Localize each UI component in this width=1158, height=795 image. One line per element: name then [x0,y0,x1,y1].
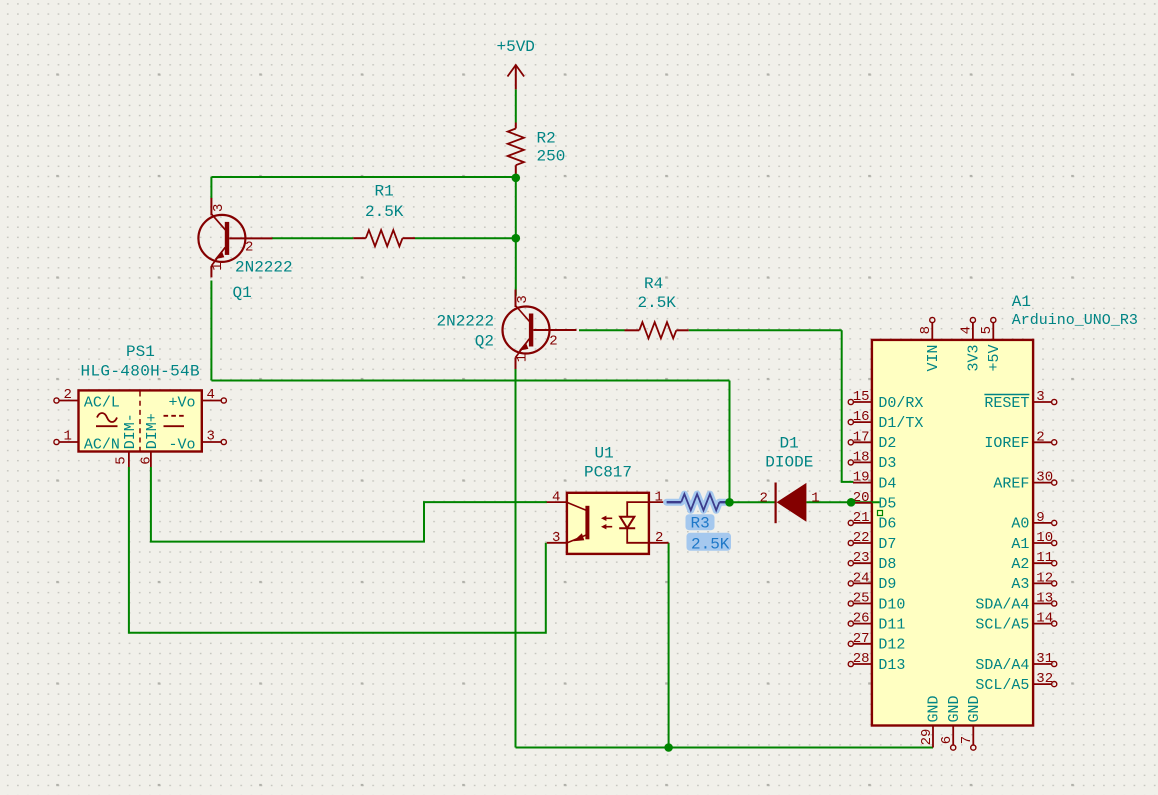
wire Q1 base to R1 [272,237,353,239]
svg-text:D11: D11 [878,616,905,633]
svg-text:2N2222: 2N2222 [235,259,293,277]
svg-text:2N2222: 2N2222 [437,313,495,331]
svg-text:2: 2 [760,491,768,507]
svg-text:DIM-: DIM- [122,413,139,449]
svg-text:R1: R1 [375,183,394,201]
svg-text:4: 4 [552,489,560,505]
svg-text:D13: D13 [878,657,905,674]
svg-text:PS1: PS1 [126,343,155,361]
resistor R1 [353,183,415,247]
svg-text:SDA/A4: SDA/A4 [975,657,1029,674]
svg-text:5: 5 [114,456,130,464]
wire R2 node down to Q2 collector [515,177,517,296]
svg-text:A2: A2 [1011,556,1029,573]
svg-text:D12: D12 [878,637,905,654]
svg-text:Arduino_UNO_R3: Arduino_UNO_R3 [1012,312,1138,329]
arduino A1 right pins [975,389,1056,694]
svg-text:2: 2 [1036,429,1044,445]
junction A R2 bottom [512,174,521,183]
svg-text:Q2: Q2 [475,333,494,351]
wire Q2 emitter down to GND rail [515,368,517,748]
optocoupler U1 body [567,493,649,554]
svg-text:2: 2 [549,334,557,350]
svg-text:28: 28 [853,651,870,667]
wire +5VD to R2 [515,89,517,122]
svg-text:2.5K: 2.5K [638,294,677,312]
svg-text:24: 24 [853,570,870,586]
svg-text:D8: D8 [878,556,896,573]
svg-text:29: 29 [919,729,935,746]
power supply PS1 body [79,390,202,451]
svg-text:D7: D7 [878,536,896,553]
junction C R3 right [725,498,734,507]
svg-text:U1: U1 [595,445,614,463]
svg-text:13: 13 [1036,591,1053,607]
svg-text:AC/L: AC/L [84,394,120,411]
svg-text:16: 16 [853,409,870,425]
power symbol +5VD [497,38,535,89]
svg-text:+5V: +5V [986,344,1003,371]
svg-text:-Vo: -Vo [169,436,196,453]
wire U1 pin2 down to GND rail [668,543,670,748]
svg-text:R2: R2 [537,130,556,148]
wire node to D1 cathode [730,501,776,503]
svg-text:6: 6 [939,736,955,744]
transistor Q1 [198,198,292,302]
svg-text:8: 8 [918,326,934,334]
svg-text:D2: D2 [878,435,896,452]
transistor Q2 [437,290,577,370]
svg-text:5: 5 [979,326,995,334]
svg-text:R3: R3 [691,515,710,533]
svg-text:27: 27 [853,631,870,647]
svg-text:30: 30 [1036,470,1053,486]
svg-text:15: 15 [853,389,870,405]
svg-text:D10: D10 [878,596,905,613]
svg-text:22: 22 [853,530,870,546]
svg-text:Q1: Q1 [233,284,252,302]
svg-text:23: 23 [853,550,870,566]
svg-text:AC/N: AC/N [84,436,120,453]
svg-text:GND: GND [946,695,963,722]
svg-text:A1: A1 [1011,536,1029,553]
svg-text:10: 10 [1036,530,1053,546]
wire Q2 base to R4 [579,329,625,331]
svg-text:25: 25 [853,591,870,607]
svg-text:250: 250 [537,148,566,166]
svg-text:R4: R4 [644,275,663,293]
svg-text:1: 1 [811,491,819,507]
svg-text:SCL/A5: SCL/A5 [975,616,1029,633]
wire Q1 collector stub [210,177,212,199]
wire PS1 pin5 to U1 pin3 [129,467,546,633]
svg-text:3: 3 [1036,389,1044,405]
svg-text:GND: GND [966,695,983,722]
svg-text:A1: A1 [1012,293,1031,311]
resistor R3 (highlighted) [667,494,731,553]
svg-text:AREF: AREF [993,475,1029,492]
svg-text:D6: D6 [878,516,896,533]
svg-text:2: 2 [655,530,663,546]
svg-text:RESET: RESET [984,395,1029,412]
svg-text:A3: A3 [1011,576,1029,593]
svg-text:1: 1 [514,354,530,362]
svg-text:2: 2 [64,387,72,403]
wire GND rail to pin 29 [516,747,934,749]
svg-text:26: 26 [853,611,870,627]
svg-text:D9: D9 [878,576,896,593]
svg-text:3: 3 [211,204,227,212]
svg-text:3V3: 3V3 [966,344,983,371]
svg-text:19: 19 [853,470,870,486]
svg-text:6: 6 [139,456,155,464]
svg-text:3: 3 [207,429,215,445]
svg-text:17: 17 [853,429,870,445]
optocoupler U1 pins and labels [547,445,669,547]
svg-text:D1/TX: D1/TX [878,415,923,432]
wire Q1 emitter down [210,281,212,381]
svg-text:31: 31 [1036,651,1053,667]
svg-text:2.5K: 2.5K [691,536,730,554]
wire D1 node into pin D5 [851,502,882,515]
wire Q1 collector to R2 node [211,176,515,178]
junction B R1 right [512,234,521,243]
arduino A1 left pins D0-D13 [848,389,923,674]
wire R4 to Arduino D4 [689,329,842,331]
svg-text:DIODE: DIODE [765,454,813,472]
svg-text:D4: D4 [878,475,896,492]
svg-text:+5VD: +5VD [497,38,535,56]
svg-text:PC817: PC817 [584,464,632,482]
svg-text:HLG-480H-54B: HLG-480H-54B [81,363,200,381]
svg-text:A0: A0 [1011,516,1029,533]
wire down to pin D4 [842,330,854,482]
svg-text:21: 21 [853,510,870,526]
svg-text:11: 11 [1036,550,1053,566]
svg-text:SCL/A5: SCL/A5 [975,677,1029,694]
svg-text:DIM+: DIM+ [144,413,161,449]
svg-text:1: 1 [655,489,663,505]
svg-text:18: 18 [853,449,870,465]
svg-text:D3: D3 [878,455,896,472]
svg-text:+Vo: +Vo [169,394,196,411]
svg-text:IOREF: IOREF [984,435,1029,452]
junction D pin D5 [847,498,856,507]
wire Q1 emitter across [211,380,729,382]
svg-text:3: 3 [552,530,560,546]
svg-text:4: 4 [207,387,215,403]
power supply PS1 pins and labels [54,343,227,467]
svg-text:14: 14 [1036,611,1053,627]
svg-text:9: 9 [1036,510,1044,526]
wire PS1 pin6 to U1 pin4 [151,467,547,542]
diode D1 [760,435,820,524]
svg-text:1: 1 [210,262,226,270]
arduino A1 top pins VIN 3V3 +5V [918,317,1003,371]
arduino A1 body [872,340,1033,726]
svg-text:D5: D5 [878,496,896,513]
svg-text:GND: GND [926,695,943,722]
svg-text:VIN: VIN [925,344,942,371]
svg-text:2: 2 [245,240,253,256]
wire D1 anode to pin D5 node [806,501,851,503]
resistor R4 [625,275,689,338]
wire R1 to node B [415,237,516,239]
svg-text:SDA/A4: SDA/A4 [975,596,1029,613]
svg-text:12: 12 [1036,570,1053,586]
svg-text:D1: D1 [780,435,799,453]
svg-text:32: 32 [1036,671,1053,687]
junction E GND rail [664,743,673,752]
svg-text:4: 4 [959,326,975,334]
resistor R2 [508,123,566,178]
wire down to R3/D1 node [729,381,731,503]
svg-text:D0/RX: D0/RX [878,395,923,412]
arduino A1 reference fields [1012,293,1138,329]
svg-text:3: 3 [515,295,531,303]
svg-text:1: 1 [64,429,72,445]
svg-text:7: 7 [959,736,975,744]
svg-text:2.5K: 2.5K [365,203,404,221]
arduino A1 bottom pins GND 29 6 7 [919,695,983,750]
